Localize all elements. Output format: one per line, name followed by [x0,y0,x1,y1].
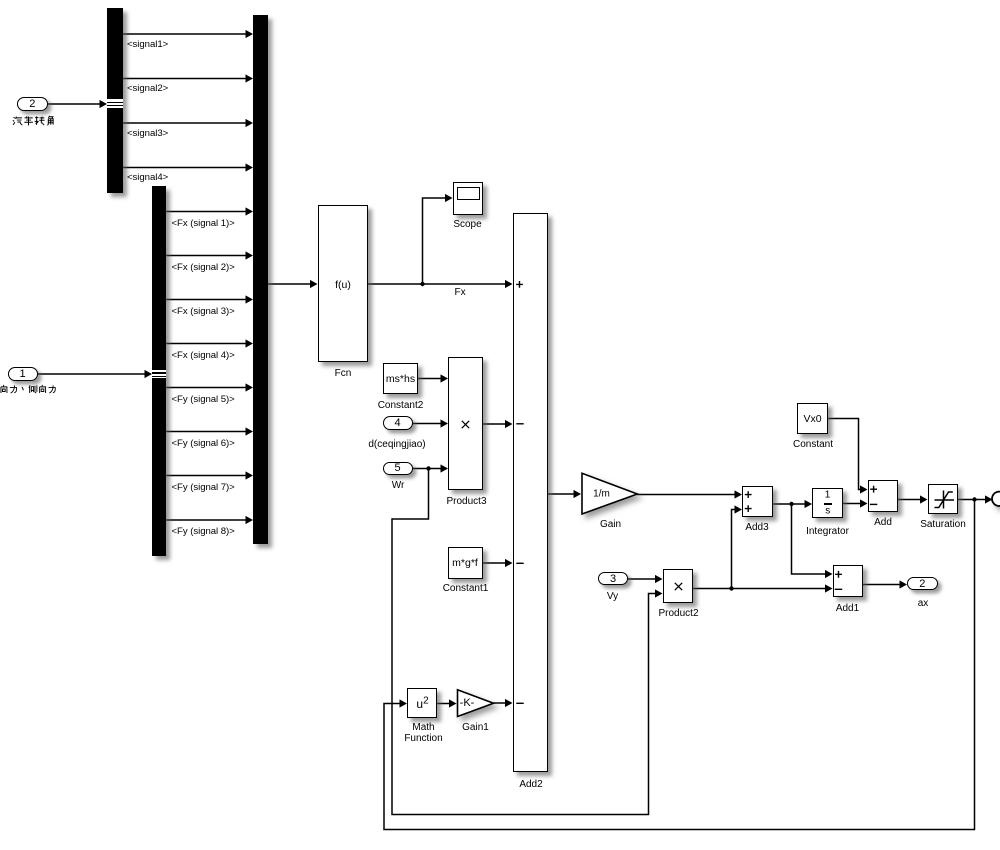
text ms*hs [386,373,415,385]
label Gain [600,519,621,531]
plus sign Add3 input2 [745,505,752,512]
label Add [874,517,892,529]
minus sign Add2 input4 [516,702,523,704]
wire Mux to Fcn [268,280,318,288]
wire port5 Wr to Product3 [413,464,449,472]
label Product3 [446,496,486,508]
wire Product2 to Add1 minus input [693,584,833,592]
wire Constant2 to Product3 [418,374,448,382]
label Wr [392,480,405,492]
wire branch Add3 output down to Add1 plus input [792,504,833,578]
scope screen [457,187,480,200]
label signal1 [127,39,168,50]
block Constant Vx0 [797,403,828,434]
block Constant1 [448,547,483,579]
wire Saturation to outport [958,495,993,503]
label Scope [453,219,481,231]
wire Vx0 Constant to Add plus input [828,419,868,494]
label qichezhuanjiao (CJK drawn as svg) [12,115,56,126]
wire feedback from Saturation output down and around to Math Function [384,500,975,830]
label Fx signal 3 [172,306,235,317]
plus sign Add3 input1 [745,491,752,498]
bus selector 2 (black bar) [152,186,166,556]
label Fy signal 8 [172,526,235,537]
minus sign Add2 input3 [516,562,523,564]
inport 1 [8,367,38,381]
label zongxiangli-cexiangli (CJK drawn as svg, clipped at left edge) [0,384,57,394]
wire signal3 [123,119,253,127]
mux (black bar) [253,15,268,545]
junction dot Product2 output [729,586,733,590]
outport 2 ax [907,577,938,590]
inport 4 [383,416,413,430]
label Product2 [658,608,698,620]
gain triangle Gain 1/m [582,473,637,514]
wire Fy signal 7 [166,471,253,479]
label Add3 [745,522,768,534]
text f(u) [335,279,351,291]
wire Add1 to outport ax [863,580,907,588]
label signal4 [127,172,168,183]
wire Fy signal 6 [166,427,253,435]
wire Fcn to Add2 first input, labeled Fx [368,280,513,288]
wire Integrator to Add minus input [843,499,868,507]
text Vx0 [803,413,821,425]
label Constant [793,439,833,451]
text u^2 in Math Function [416,695,428,711]
bus selector 2 input stripes [152,370,166,378]
wire Fy signal 8 [166,516,253,524]
junction dot Add3 output [789,502,793,506]
label Fy signal 5 [172,394,235,405]
block Add (sum) [868,480,898,512]
junction dot Fx branch [420,282,424,286]
block Add3 (sum) [742,486,773,518]
text 1/s in Integrator [825,489,831,500]
label Fx wire [455,287,466,298]
block Add1 (sum) [833,565,864,597]
minus sign Add input2 [870,503,877,505]
minus sign Add1 input2 [835,588,842,590]
text -K- in Gain1 [460,697,475,709]
wire signal1 [123,30,253,38]
plus sign Add input1 [870,486,877,493]
label Math Function [404,722,442,746]
label Constant1 [443,583,489,595]
label Constant2 [378,400,424,412]
block Add2 (sum) [513,213,549,772]
outport circle (clipped at right edge) [992,492,1000,506]
wire Add3 to Integrator [773,500,812,508]
inport 5 [383,462,413,475]
wire port1 to BusSelector2 [38,370,153,378]
junction dot Wr branch [426,466,430,470]
inport 3 Vy [598,572,628,585]
wire Fy signal 5 [166,383,253,391]
label signal3 [127,128,168,139]
wire Fx signal 1 [166,207,253,215]
wire port4 to Product3 [413,419,449,427]
block Scope [453,182,484,215]
minus sign Add2 input2 [516,423,523,425]
plus sign Add2 input1 [516,281,523,288]
label Fcn [335,368,352,380]
wire Constant1 to Add2 third input [483,559,513,567]
wire Product3 to Add2 second input [483,420,513,428]
block Constant2 [383,363,419,395]
wire Gain to Add3 first input [637,490,742,498]
bus selector 1 input stripes [107,99,123,107]
label Gain1 [462,722,489,734]
wire Fx signal 4 [166,339,253,347]
label Fx signal 4 [172,350,235,361]
wire signal4 [123,163,253,171]
label ax [918,598,929,610]
label Saturation [920,519,966,531]
wire Wr branch down to Product2 lower input [392,469,663,815]
plus sign Add1 input1 [835,571,842,578]
block Saturation [928,484,959,514]
wire Add2 to Gain [548,490,581,498]
wire branch to Scope [423,194,453,284]
saturation icon [928,484,959,514]
wire Math Function to Gain1 [437,699,457,707]
wire Gain1 to Add2 fourth input [494,699,513,707]
wire Vy port3 to Product2 [628,575,663,583]
block Product2 [663,569,693,603]
block Fcn [318,205,369,362]
label Fy signal 6 [172,438,235,449]
label d(ceqingjiao) [368,439,425,451]
wire port2 to BusSelector1 [48,100,107,108]
label signal2 [127,83,168,94]
multiply sign Product3 [461,420,470,429]
bus selector 1 (black bar) [107,8,123,194]
junction dot Saturation output [972,497,976,501]
wire Fx signal 3 [166,295,253,303]
label Integrator [806,526,849,538]
multiply sign Product2 [674,582,683,591]
block Integrator [812,488,843,518]
wire Add to Saturation [898,495,928,503]
label Add1 [836,603,859,615]
label Fx signal 2 [172,262,235,273]
text m*g*f [452,557,478,569]
label Fy signal 7 [172,482,235,493]
label Fx signal 1 [172,218,235,229]
wire signal2 [123,74,253,82]
label Vy [607,591,618,603]
wire branch Product2 output up to Add3 second input [732,505,743,588]
block Product3 [448,357,483,490]
wire Fx signal 2 [166,251,253,259]
text 1/m in Gain [593,488,610,499]
gain triangle Gain1 -K- [458,690,494,717]
block Math Function [407,688,437,718]
label Add2 [519,779,542,791]
inport 2 [17,97,48,111]
